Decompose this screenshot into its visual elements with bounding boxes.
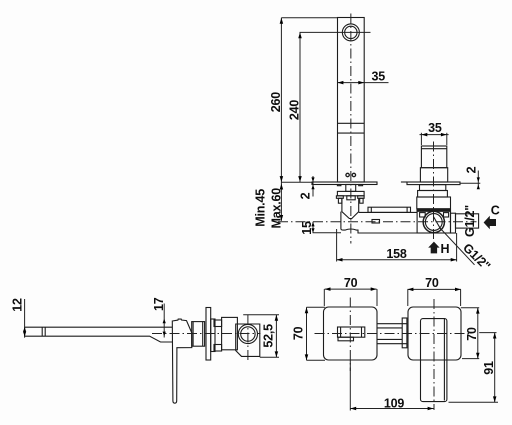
valve ball circles	[423, 211, 444, 232]
valve centerline	[433, 142, 435, 241]
G1/2 label diagonal with leader	[440, 228, 494, 274]
centerlines	[152, 315, 261, 362]
spout neck behind plate	[346, 185, 356, 192]
spout break lines	[338, 123, 365, 133]
dimension 70 (right rotated)	[461, 308, 480, 359]
svg-text:15: 15	[300, 221, 314, 235]
dimension 70 (top left)	[324, 276, 377, 306]
horizontal supply pipe outline	[341, 212, 456, 233]
dimension 70 (left rotated)	[292, 307, 325, 360]
valve bracket	[418, 191, 448, 198]
dimension 17	[152, 297, 166, 337]
body tabs	[214, 320, 222, 351]
pipe centerline	[278, 221, 477, 223]
wall plate (spout escutcheon, edge view)	[312, 182, 377, 186]
dimension 15	[300, 221, 341, 235]
valve housing	[417, 197, 451, 209]
valve block on pipe	[417, 209, 451, 233]
G1/2 label vertical	[463, 205, 477, 237]
valve escutcheon plate (edge view)	[401, 182, 460, 185]
svg-text:35: 35	[371, 70, 385, 84]
dimension 2 (right plate thickness)	[460, 166, 480, 189]
svg-text:158: 158	[386, 247, 407, 261]
svg-text:52,5: 52,5	[261, 324, 275, 348]
aerator horizontal centerline	[300, 31, 371, 33]
svg-text:70: 70	[292, 326, 306, 340]
cartridge sleeve	[192, 322, 205, 347]
spout bar	[25, 327, 173, 342]
right escutcheon square	[408, 307, 461, 360]
dimension 70 (top right)	[408, 276, 461, 306]
fixing bracket bar	[337, 191, 364, 195]
dimension 52,5	[243, 315, 279, 358]
flange behind plate	[211, 319, 215, 352]
dimension 91	[449, 333, 499, 403]
dimension 35 (spout width)	[338, 70, 389, 85]
valve neck below plate	[420, 185, 446, 191]
dimension 240	[288, 32, 302, 182]
spout slot	[338, 327, 365, 341]
mounting bar on pipe	[368, 207, 411, 212]
svg-text:12: 12	[10, 298, 24, 312]
svg-text:G1/2": G1/2"	[460, 241, 493, 274]
left escutcheon square	[324, 307, 378, 360]
aerator circle	[342, 24, 359, 41]
set screw on pipe	[372, 220, 380, 224]
centerlines left square	[315, 298, 471, 372]
dimension 158	[337, 229, 457, 262]
valve circle (side)	[238, 324, 257, 343]
svg-text:91: 91	[482, 361, 496, 375]
wall escutcheon plate (side)	[206, 308, 211, 361]
svg-text:C: C	[491, 204, 500, 218]
svg-text:H: H	[441, 242, 450, 256]
svg-text:240: 240	[288, 100, 302, 121]
svg-text:70: 70	[465, 327, 479, 341]
dimension 2 (left plate thickness)	[299, 176, 315, 199]
svg-text:2: 2	[299, 192, 313, 199]
svg-text:Max.60: Max.60	[269, 188, 283, 229]
dimension 109	[350, 360, 433, 410]
dimension 35 (valve width)	[420, 121, 449, 145]
extension line to plate	[281, 181, 312, 183]
connecting bar	[377, 318, 407, 348]
top extension line	[281, 17, 337, 19]
cartridge block	[222, 317, 238, 349]
right square centerline	[433, 299, 435, 410]
handle hub and lever blade	[172, 319, 192, 403]
svg-text:260: 260	[269, 92, 283, 113]
svg-text:109: 109	[384, 397, 405, 411]
spout column body	[338, 18, 365, 183]
svg-text:Min.45: Min.45	[253, 189, 267, 227]
fixing dots on column	[346, 173, 356, 176]
valve housing with chamfer	[236, 324, 260, 356]
spout column centerline	[350, 14, 352, 244]
outlet stub	[456, 214, 479, 228]
svg-text:35: 35	[428, 121, 442, 135]
outlet end cap	[451, 213, 456, 233]
svg-text:70: 70	[425, 276, 439, 290]
bracket screw tabs	[336, 196, 364, 203]
cold inlet arrow C	[484, 204, 500, 230]
valve cartridge column	[420, 146, 447, 182]
svg-text:2: 2	[465, 166, 479, 173]
svg-text:17: 17	[152, 297, 166, 311]
inlet bell with chamfered bottom	[342, 198, 359, 218]
svg-text:G1/2": G1/2"	[463, 205, 477, 237]
dimension 12	[10, 298, 26, 338]
hot inlet arrow H	[428, 242, 449, 257]
svg-text:70: 70	[344, 276, 358, 290]
dimension 260	[269, 18, 283, 221]
dimension Min.45 / Max.60	[253, 184, 283, 229]
spout front (tall rounded rect)	[421, 319, 447, 402]
